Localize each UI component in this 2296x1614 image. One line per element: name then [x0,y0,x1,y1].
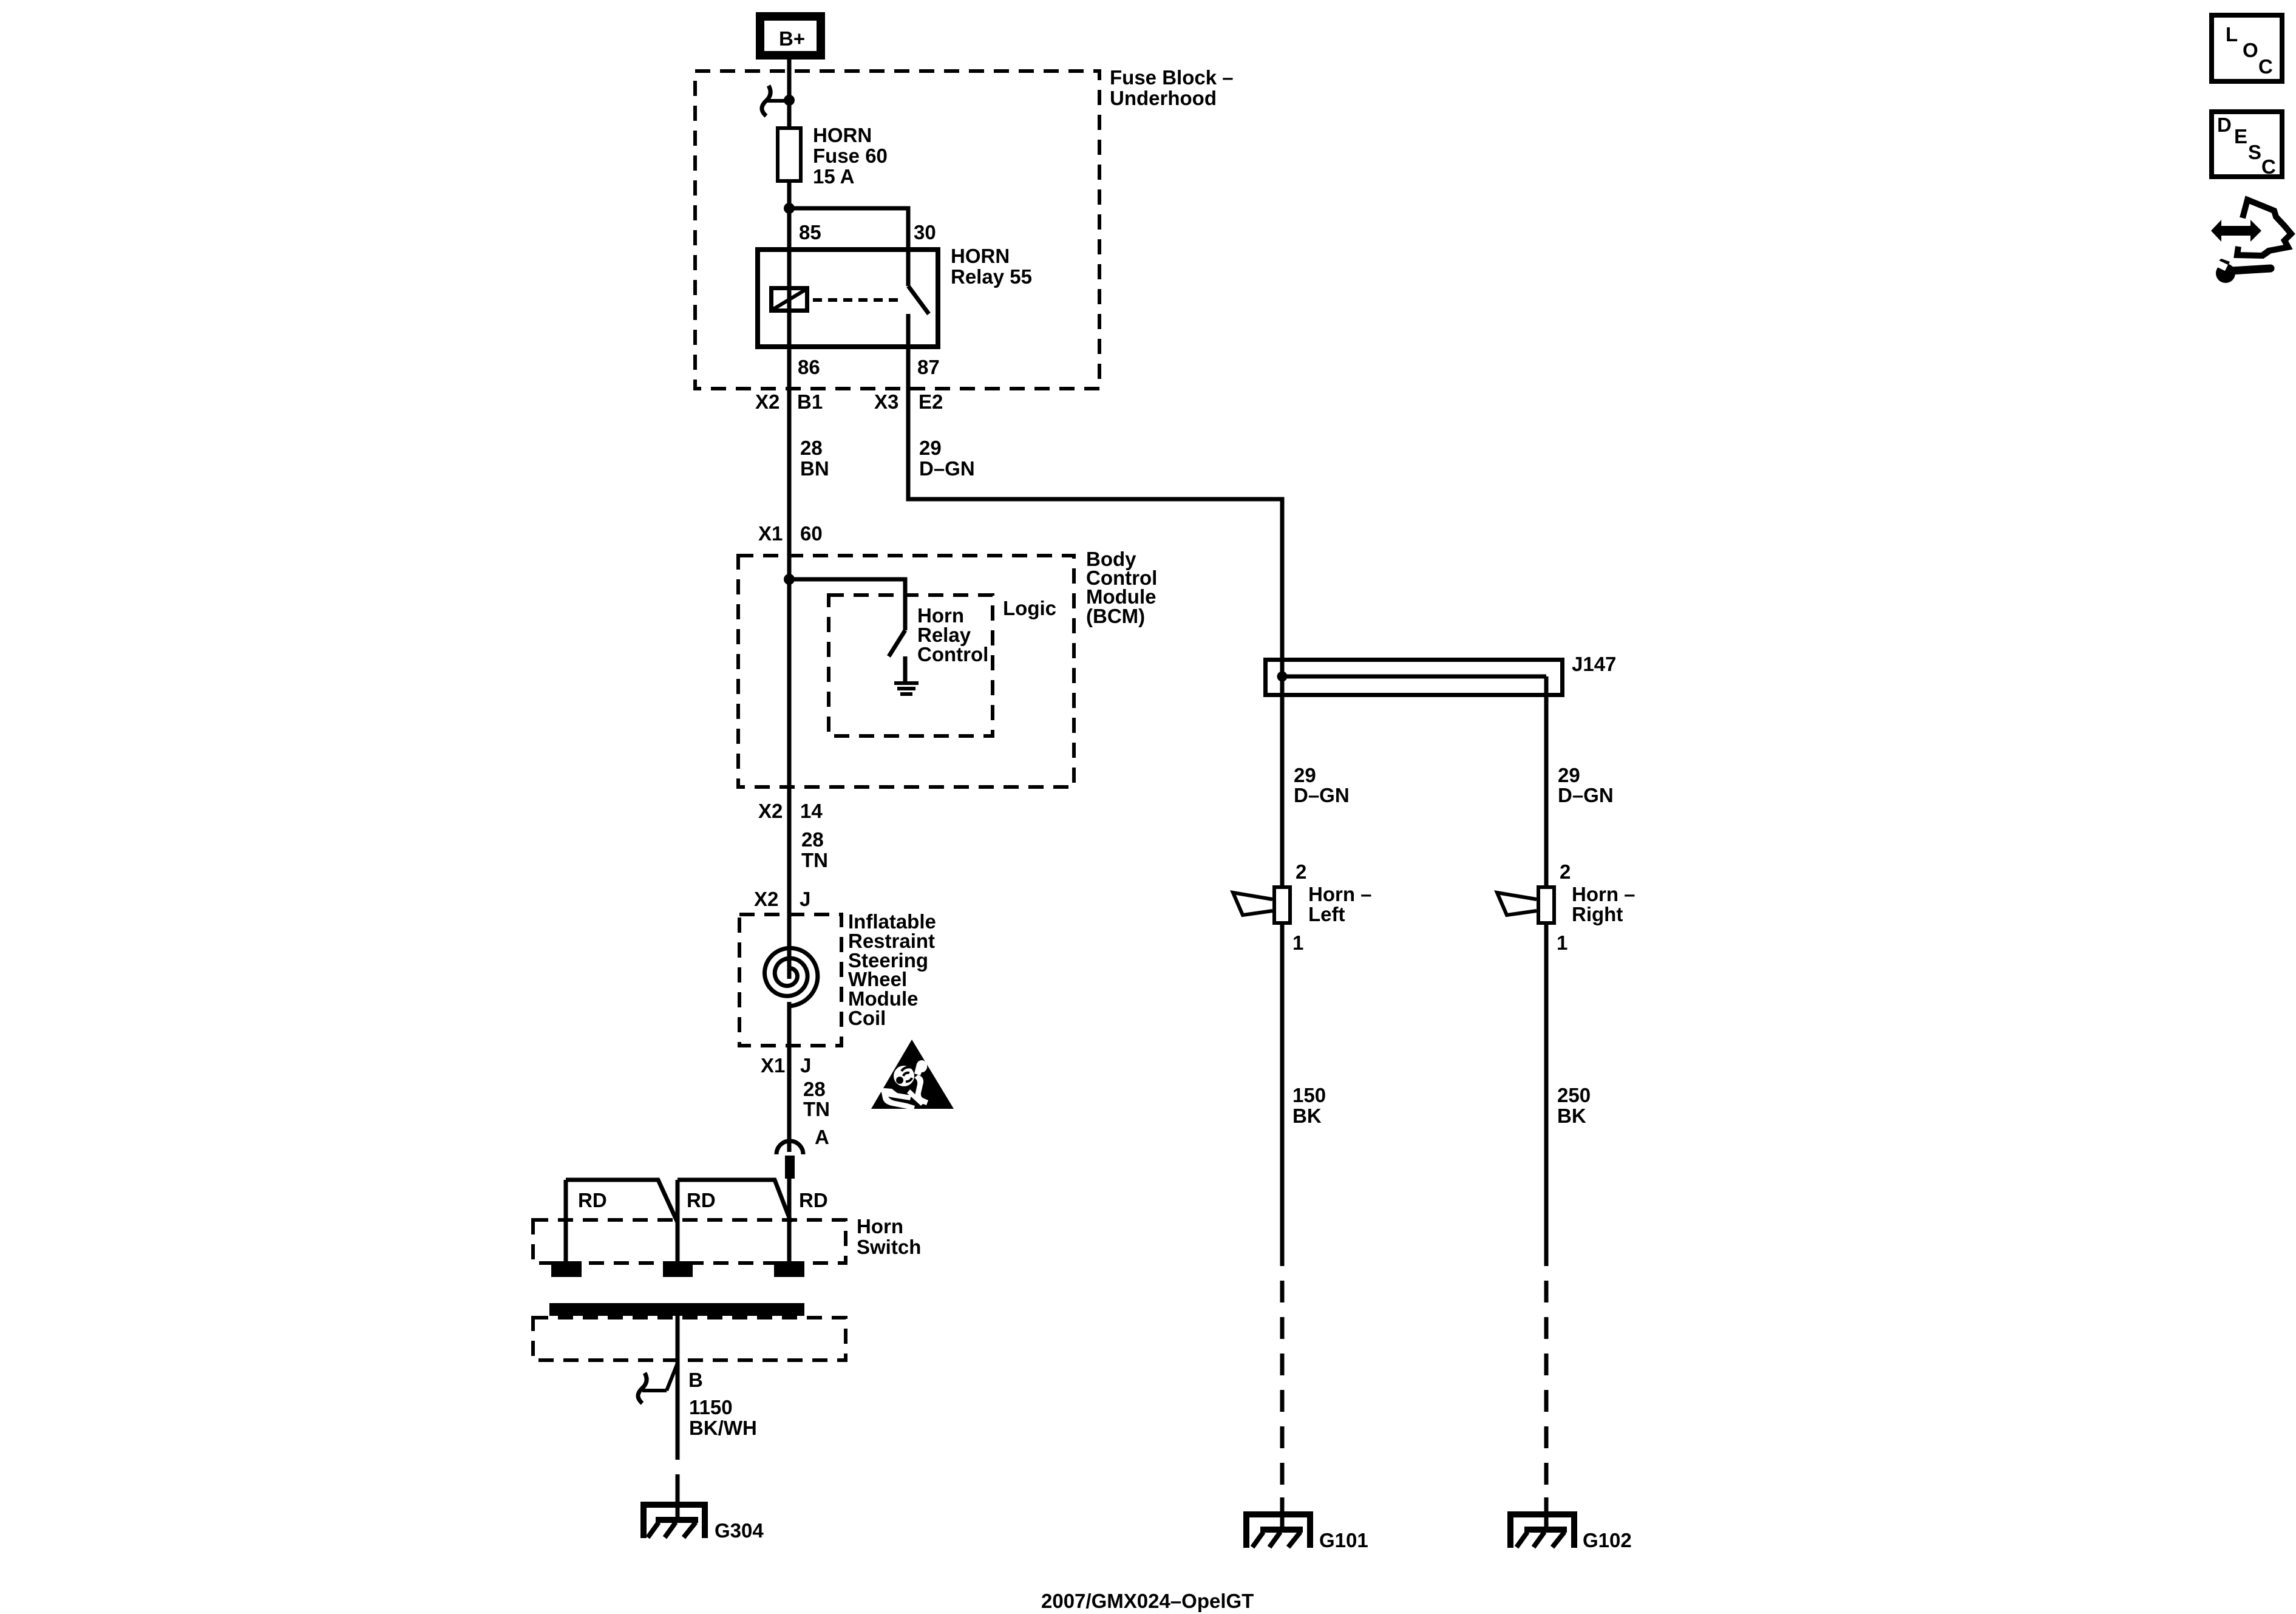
svg-text:28: 28 [801,828,824,851]
wire label 29 D-GN left [1294,764,1350,806]
steering column contact bar [549,1303,804,1316]
connector row X2 J [754,888,810,910]
relay switch blade [908,286,929,314]
svg-text:RD: RD [687,1189,716,1211]
svg-text:Horn –: Horn – [1572,883,1635,905]
svg-text:C: C [2258,55,2273,78]
connector row X1 60 [758,522,823,545]
wire terminal A to horn switch [787,1179,792,1261]
svg-text:D–GN: D–GN [1294,784,1350,806]
svg-text:RD: RD [578,1189,607,1211]
wire label 29 D-GN [919,437,975,480]
BCM dashed box [738,556,1074,787]
ground G304 [644,1505,764,1542]
wire label 28 TN [801,828,828,871]
svg-text:Relay 55: Relay 55 [951,265,1032,288]
ground G101 [1246,1514,1368,1551]
horn left symbol [1233,887,1290,923]
svg-text:B+: B+ [779,27,805,50]
wire label 150 BK [1292,1084,1326,1127]
svg-text:J: J [800,1054,811,1077]
svg-text:G101: G101 [1319,1529,1368,1551]
label Inflatable Restraint Steering Wheel Module Coil [848,910,936,1029]
svg-text:29: 29 [1294,764,1316,786]
svg-text:Horn –: Horn – [1308,883,1372,905]
svg-text:1150: 1150 [689,1396,733,1418]
wire label 28 BN [800,437,829,480]
label Horn - Left [1308,883,1372,925]
svg-text:Horn: Horn [857,1215,903,1238]
label HORN Relay 55 [951,245,1032,288]
connector row X1 J [761,1054,811,1077]
wire J147 to horn left [1280,676,1285,885]
wire label 250 BK [1557,1084,1591,1127]
horn switch contact pads [551,1261,804,1277]
svg-text:E: E [2234,125,2247,148]
wire label 1150 BK/WH [689,1396,757,1439]
svg-text:X1: X1 [761,1054,785,1077]
svg-text:D–GN: D–GN [919,457,975,480]
label Fuse Block - Underhood [1110,66,1234,109]
label Horn - Right [1572,883,1635,925]
svg-text:Control: Control [917,643,988,666]
svg-text:BN: BN [800,457,829,480]
horn right symbol [1497,887,1554,923]
wire coil to terminal A [787,1002,792,1152]
svg-text:29: 29 [919,437,942,459]
svg-text:Coil: Coil [848,1007,886,1029]
service/navigation icon (arrow, hand, wrench) [2211,200,2291,283]
in-line connector B [638,1363,678,1403]
wire B+ to relay (feed) [787,57,792,979]
wire color labels RD [578,1189,828,1211]
svg-text:28: 28 [803,1078,826,1100]
svg-text:B: B [688,1369,703,1391]
svg-text:BK: BK [1292,1105,1322,1127]
svg-text:L: L [2226,23,2238,46]
junction node at fuse output [784,203,795,214]
svg-text:X1: X1 [758,522,783,545]
svg-text:B1: B1 [797,390,823,413]
wire horn switch to ground G304 [676,1315,680,1438]
svg-text:X2: X2 [758,800,783,822]
svg-text:Underhood: Underhood [1110,87,1217,109]
svg-text:Right: Right [1572,903,1623,925]
svg-text:D–GN: D–GN [1558,784,1614,806]
label Body Control Module (BCM) [1086,548,1157,627]
label Horn Relay Control [917,604,988,666]
connector arc at terminal A [776,1141,803,1154]
label Horn Switch [857,1215,921,1258]
wire relay pin 87 to J147 [908,314,1282,676]
LOC navigation box [2212,15,2282,81]
in-line connector at fuse feed [762,86,795,116]
svg-text:X3: X3 [874,390,898,413]
svg-text:J147: J147 [1572,653,1616,675]
terminal A pin [785,1156,795,1179]
svg-text:X2: X2 [755,390,779,413]
wire label 29 D-GN right [1558,764,1614,806]
svg-text:TN: TN [801,849,828,871]
wire fuse output to relay pin 30 [789,208,908,286]
svg-text:14: 14 [800,800,823,822]
svg-text:HORN: HORN [951,245,1010,267]
wire to horn relay control switch [789,579,905,630]
svg-text:HORN: HORN [813,124,872,146]
svg-text:Logic: Logic [1003,597,1056,619]
svg-text:85: 85 [799,221,821,243]
svg-text:15 A: 15 A [813,165,854,188]
svg-text:87: 87 [917,356,940,378]
signal ground in BCM [894,656,919,696]
wire J147 to horn right [1544,676,1549,885]
DESC navigation box [2212,112,2282,178]
clockspring coil spiral [765,948,818,1006]
svg-text:30: 30 [914,221,936,243]
svg-text:250: 250 [1557,1084,1591,1106]
svg-text:A: A [815,1126,829,1148]
svg-text:2: 2 [1560,860,1571,883]
svg-text:1: 1 [1557,931,1567,954]
svg-text:Fuse Block –: Fuse Block – [1110,66,1234,89]
svg-text:O: O [2243,39,2258,61]
connector row X2 14 [758,800,823,822]
relay actuation dashed link [813,298,903,302]
svg-text:Left: Left [1308,903,1345,925]
node junction in BCM [784,574,795,585]
wire horn left to ground [1280,925,1285,1244]
svg-text:28: 28 [800,437,823,459]
svg-text:1: 1 [1292,931,1303,954]
svg-text:(BCM): (BCM) [1086,605,1145,627]
splice pack J147 [1266,653,1617,695]
connector row X2 B1 / X3 E2 [755,390,943,413]
wire horn right to ground [1544,925,1549,1244]
svg-text:Switch: Switch [857,1236,921,1258]
svg-text:G304: G304 [715,1519,764,1542]
horn switch contacts [566,1180,791,1261]
lower dashed box [533,1318,846,1360]
Inflatable Restraint Steering Wheel Module Coil dashed box [739,914,841,1046]
svg-text:RD: RD [799,1189,828,1211]
svg-text:X2: X2 [754,888,778,910]
svg-text:150: 150 [1292,1084,1326,1106]
svg-text:BK: BK [1557,1105,1586,1127]
ground G102 [1510,1514,1632,1551]
airbag SIR warning triangle [871,1040,954,1110]
Fuse Block - Underhood dashed box [695,71,1099,389]
svg-text:C: C [2261,155,2276,178]
svg-text:D: D [2217,114,2232,136]
svg-text:S: S [2248,141,2261,163]
Horn Switch dashed box [533,1220,846,1263]
svg-text:BK/WH: BK/WH [689,1417,757,1439]
battery terminal B+ [756,12,825,60]
svg-text:J: J [800,888,810,910]
svg-text:2: 2 [1296,860,1306,883]
svg-text:29: 29 [1558,764,1580,786]
Logic dashed box [829,595,993,736]
svg-text:86: 86 [798,356,820,378]
svg-text:2007/GMX024–OpelGT: 2007/GMX024–OpelGT [1041,1590,1254,1612]
svg-text:60: 60 [800,522,823,545]
horn relay control switch blade [889,630,905,656]
fuse HORN Fuse 60 15 A [778,124,888,188]
svg-text:E2: E2 [919,390,943,413]
relay HORN Relay 55 box [758,250,938,347]
relay coil [772,288,807,311]
svg-text:TN: TN [803,1098,830,1120]
wire label 28 TN lower [803,1078,830,1120]
svg-text:Fuse 60: Fuse 60 [813,145,888,167]
svg-text:G102: G102 [1583,1529,1632,1551]
